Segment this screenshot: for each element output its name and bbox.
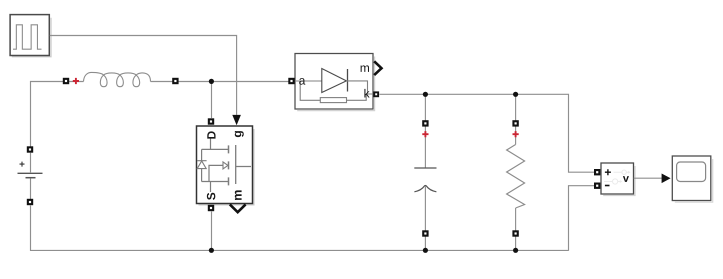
faint meter icon middle [604,181,620,183]
snubber resistor [320,98,346,103]
label k [364,89,369,98]
voltage measurement block VM [601,163,635,196]
diode cathode bar [347,69,349,92]
wire: node A down to MOSFET drain [211,82,213,119]
MOSFET D port [208,118,214,124]
wire: inductor to node A and diode anode [151,81,295,83]
diode a port [288,78,294,84]
label v [623,176,629,182]
MOSFET gate input arrow (connected, filled) [232,115,241,125]
node A junction dot [209,79,214,84]
voltage measurement - port [594,183,600,189]
diode triangle [322,69,347,93]
label m [235,190,242,200]
junction dot resistor top [513,92,518,97]
MOSFET m output chevron [230,204,246,212]
resistor R zigzag [507,145,525,209]
wire: - of voltage measurement down to bottom rail [569,186,595,251]
label - [605,185,610,187]
label + [605,169,611,175]
wire: left branch from inductor to DC source [31,82,84,149]
label g [235,131,244,137]
diode cathode to k wire [347,81,374,94]
capacitor C branch top wire [424,94,426,168]
wire: pulse generator output to MOSFET gate [50,36,237,115]
MOSFET drain lead [202,138,229,149]
red polarity + of resistor [513,131,519,137]
MOSFET gate plate [236,145,251,184]
MOSFET source lead [202,182,229,193]
junction dot MOSFET source / bottom rail [209,248,214,253]
label m [361,65,369,71]
red polarity + of inductor [73,78,79,84]
capacitor C [414,168,436,192]
inductor L [84,72,151,86]
resistor R branch top wire [515,94,517,144]
diode anode lead [295,80,322,82]
faint meter icon top [614,171,629,173]
junction dot resistor bottom [513,248,518,253]
inductor left port [63,78,69,84]
wire: output top rail from diode k to voltage measurement + [379,94,594,172]
wire: DC source bottom to bottom rail [30,206,32,251]
diode k port [373,91,379,97]
diode block D1 [295,54,382,111]
resistor bottom port [512,230,518,236]
red polarity + of capacitor [422,131,428,137]
label a [299,78,305,85]
DC voltage source E1 [18,153,43,199]
MOSFET body diode [197,149,207,181]
wire: voltage measurement output to scope [634,177,662,179]
junction dot capacitor bottom [423,248,428,253]
label S [207,193,216,200]
MOSFET S port [208,205,214,211]
resistor bottom wire [515,208,517,250]
capacitor top port [422,120,428,126]
diode m output chevron [374,61,381,75]
scope input arrow [662,174,671,184]
capacitor bottom wire [424,186,426,250]
wire: MOSFET source to bottom rail [211,211,213,250]
inductor right port [172,78,178,84]
wire: bottom rail [30,249,568,251]
pulse generator block [10,15,51,57]
MOSFET substrate arrow [209,165,223,181]
MOSFET block Q1 [197,126,254,205]
DC source - port [27,199,33,205]
MOSFET channel segments [228,145,230,185]
scope block [672,156,712,202]
DC source + port [27,146,33,152]
snubber branch wire [300,81,366,100]
junction dot capacitor top [423,92,428,97]
resistor top port [512,120,518,126]
voltage measurement + port [594,169,600,175]
label D [207,131,215,138]
capacitor bottom port [422,230,428,236]
